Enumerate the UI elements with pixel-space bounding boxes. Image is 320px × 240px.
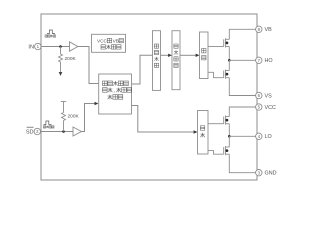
wire buffer U2 to logic box (arrow) [82,104,95,132]
wire pulse filter to high-side driver (arrow) [180,54,196,56]
pulse filter box [172,31,180,90]
transistor M2 (HO low) [224,70,230,79]
svg-text:VB: VB [113,38,119,43]
node LO junction [228,135,231,138]
svg-text:VS: VS [265,93,273,99]
low-side driver box [198,111,209,155]
label signal-input (SD) [43,126,45,128]
wire M3 drain to VCC [229,107,255,117]
svg-text:IN: IN [28,45,34,51]
pin 8 VB [256,26,262,32]
wire M2 drain up [228,60,230,70]
wire logic box to low-side driver (arrow) [132,106,194,133]
svg-text:LO: LO [265,134,272,140]
wire M1 source to HO node [228,47,230,61]
IC boundary box [41,14,257,180]
wire M4 source to GND [229,154,255,173]
svg-text:VCC: VCC [265,105,276,111]
transistor M4 (LO low) [224,146,230,155]
pin 7 HO [256,57,262,63]
node IN junction [59,45,62,48]
wire M2 source to VS [229,78,255,96]
wire driver to M4 gate (step) [208,151,224,155]
transistor M1 (HO high) [224,38,230,47]
wire driver to M2 gate (step) [208,72,224,77]
wire driver to M1 gate [208,46,224,48]
op-amp buffer U2 (SD) [73,127,82,136]
label signal-input (IN) [45,35,47,37]
pulse waveform symbol (SD) [44,121,52,125]
transistor M3 (LO high) [224,116,230,125]
wire level shift to pulse filter (arrow) [161,54,169,56]
svg-text:VB: VB [265,27,273,33]
logic control / dead-time circuit box [99,74,132,114]
svg-text:200K: 200K [65,56,77,62]
resistor R1 200K (IN pulldown) [59,47,63,73]
op-amp buffer U1 (IN) [70,42,78,51]
svg-text:GND: GND [265,171,277,177]
resistor R2 200K (SD pullup) [61,102,66,132]
wire M1 drain to VB [229,29,255,39]
undervoltage protection box (VCC and VB UV protect) [92,34,126,52]
high-side driver box [200,32,209,79]
node SD junction [62,130,65,133]
svg-text:SD: SD [26,130,34,136]
node HO junction [228,59,231,62]
pin 5 VCC [256,104,262,110]
wire HO node to pin 7 [229,59,255,61]
pulse waveform symbol (IN) [47,30,55,34]
pin 3 GND [256,170,262,176]
pin 2 [34,128,40,134]
wire M3 source to LO node [228,124,230,137]
svg-text:,: , [114,88,115,94]
level shift box [153,31,161,91]
svg-text:VCC: VCC [97,38,108,43]
wire IN to buffer [41,46,70,48]
wire logic box to level shifter [132,55,153,84]
pin 1 [35,43,41,49]
pin 6 VS [256,92,262,98]
svg-text:200K: 200K [68,114,80,120]
wire M4 drain up [228,136,230,147]
pin 4 LO [256,133,262,139]
wire LO node to pin 4 [229,135,255,137]
wire buffer U1 to logic box [78,47,99,84]
wire SD to buffer [41,131,73,133]
wire driver to M3 gate [208,123,224,125]
svg-text:HO: HO [265,58,273,64]
